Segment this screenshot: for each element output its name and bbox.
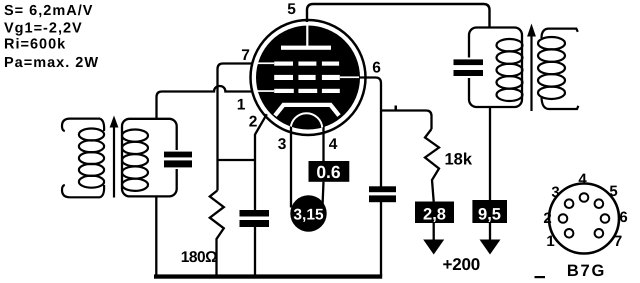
tube outer circle	[251, 20, 366, 135]
wire capacitor to ground rail	[254, 227, 256, 277]
svg-text:Ri=600k: Ri=600k	[4, 37, 66, 53]
wire pin1 grid to input tank (with hop over)	[157, 86, 252, 118]
secondary coil L2	[122, 130, 148, 142]
tank capacitor C1	[164, 152, 192, 158]
svg-text:2: 2	[543, 210, 551, 227]
primary bottom lead	[62, 185, 100, 197]
svg-text:3: 3	[278, 136, 287, 153]
secondary bottom lead	[542, 96, 579, 109]
tank loop wire	[469, 28, 522, 108]
svg-text:3: 3	[551, 184, 559, 201]
socket pin 1 hole	[565, 229, 574, 238]
input IF transformer T1	[62, 116, 192, 198]
wire pin4 heater	[322, 124, 324, 161]
svg-text:4: 4	[578, 171, 587, 188]
secondary top lead	[542, 29, 578, 38]
tuning arrow	[530, 35, 532, 111]
grid row 3	[257, 90, 274, 92]
grid row 2	[274, 75, 293, 80]
ground rail	[154, 274, 382, 278]
socket pin 4 hole	[580, 193, 589, 202]
wire capacitor to rail	[380, 202, 382, 276]
svg-text:1: 1	[546, 233, 554, 250]
cathode	[275, 105, 339, 116]
primary top lead	[62, 119, 100, 131]
B7G socket diagram	[543, 171, 627, 280]
svg-text:2,8: 2,8	[423, 206, 446, 224]
wire input tank bottom to rail	[155, 196, 157, 274]
tube envelope black disc	[256, 26, 360, 130]
svg-text:Vg1=-2,2V: Vg1=-2,2V	[4, 20, 83, 36]
svg-text:S= 6,2mA/V: S= 6,2mA/V	[4, 3, 93, 19]
svg-text:7: 7	[241, 47, 250, 64]
svg-text:5: 5	[609, 183, 617, 200]
arrow to +200 (right)	[489, 223, 491, 240]
wire pin7 grid to 180 ohm resistor	[218, 64, 252, 191]
wire pin6 screen to decoupling	[360, 78, 381, 187]
label 0.6	[309, 161, 350, 182]
label 2,8	[415, 202, 454, 224]
label 9,5	[472, 200, 507, 223]
arrow to +200 (left)	[433, 223, 435, 240]
secondary coil L4	[538, 37, 565, 49]
svg-text:5: 5	[287, 1, 296, 18]
svg-text:1: 1	[237, 97, 246, 114]
tank capacitor C4	[454, 59, 484, 65]
svg-text:18k: 18k	[445, 151, 473, 169]
anode lead white	[306, 24, 308, 46]
tank loop wire	[122, 119, 177, 197]
output IF transformer T2	[454, 24, 579, 112]
capacitor C2 cathode bypass	[240, 210, 270, 217]
heater circle	[291, 113, 323, 145]
primary coil L1	[100, 119, 104, 131]
svg-text:+200: +200	[443, 255, 481, 274]
capacitor C3 screen decoupling	[369, 186, 396, 192]
svg-text:B7G: B7G	[567, 262, 606, 280]
wire pin5 anode to output transformer top	[307, 4, 490, 28]
svg-text:6: 6	[619, 209, 627, 226]
svg-text:0.6: 0.6	[316, 162, 341, 182]
svg-text:9,5: 9,5	[478, 206, 501, 224]
socket pin 5 hole	[595, 199, 604, 208]
svg-text:Pa=max. 2W: Pa=max. 2W	[4, 55, 99, 71]
anode bar	[281, 46, 331, 50]
svg-text:3,15: 3,15	[293, 207, 324, 224]
socket pin 7 hole	[595, 229, 604, 238]
primary coil L3	[497, 39, 523, 51]
socket pin 3 hole	[565, 199, 574, 208]
stray mark	[535, 276, 546, 278]
svg-text:180Ω: 180Ω	[181, 249, 217, 266]
svg-text:6: 6	[372, 60, 381, 77]
wire junction cathode network	[218, 159, 256, 161]
grid row 1	[257, 62, 274, 64]
junction tick	[395, 106, 398, 110]
socket pin 6 hole	[601, 214, 610, 223]
wire output tank bottom to 9,5	[489, 107, 491, 200]
resistor R1 180 ohm	[210, 191, 224, 276]
label 3,15	[290, 195, 326, 231]
tube V1	[251, 20, 366, 145]
tuning arrow	[113, 126, 115, 198]
wire branch to 18k resistor	[381, 111, 432, 130]
svg-text:4: 4	[329, 136, 338, 153]
socket circle	[549, 184, 619, 254]
svg-text:2: 2	[249, 114, 258, 131]
socket pin 2 hole	[559, 214, 568, 223]
wire pin3 heater	[290, 124, 292, 208]
resistor R2 18k	[425, 129, 439, 202]
wire pin2 to bypass capacitor	[255, 114, 267, 210]
svg-text:7: 7	[614, 233, 622, 250]
